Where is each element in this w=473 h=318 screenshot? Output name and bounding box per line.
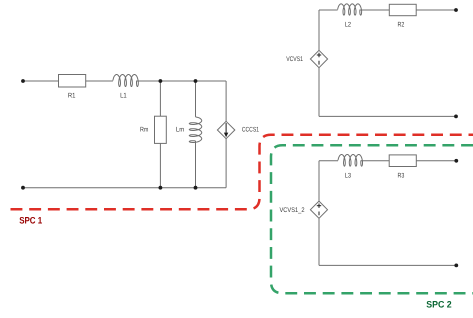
SPC 1 boundary (red dashed) bbox=[11, 135, 473, 210]
svg-text:SPC 1: SPC 1 bbox=[19, 215, 42, 226]
wire Lm to bottom bbox=[195, 141, 197, 188]
wire top-right corner to L2 bbox=[319, 9, 338, 11]
wire L1 to CCCS1 column bbox=[137, 80, 226, 82]
SPC 2 boundary (green dashed) bbox=[271, 145, 473, 293]
resistor R2 bbox=[389, 4, 416, 15]
wire VCVS1 to bottom bbox=[318, 68, 320, 117]
terminal dot top-right circuit bottom bbox=[454, 115, 458, 119]
wire CCCS1 to bottom bbox=[225, 139, 227, 188]
terminal dot bottom-right circuit bottom bbox=[454, 264, 458, 268]
svg-text:L3: L3 bbox=[345, 172, 352, 179]
wire top-left to R1 bbox=[23, 80, 59, 82]
inductor L1 bbox=[113, 75, 138, 87]
voltage source VCVS1 bbox=[310, 50, 327, 67]
inductor L2 bbox=[338, 4, 362, 15]
terminal dot bottom-left bbox=[21, 186, 25, 190]
svg-text:R3: R3 bbox=[398, 172, 405, 179]
wire bottom rail bottom-right circuit bbox=[319, 264, 456, 266]
wire R1 to L1 bbox=[86, 80, 113, 82]
wire node A down to Rm bbox=[159, 81, 161, 116]
voltage source VCVS1_2 bbox=[310, 201, 327, 218]
junction Rm top bbox=[159, 79, 163, 83]
terminal dot bottom-right circuit top bbox=[454, 159, 458, 163]
svg-text:Rm: Rm bbox=[140, 126, 149, 133]
junction Lm bottom bbox=[194, 186, 198, 190]
wire down to VCVS1 bbox=[318, 10, 320, 50]
wire R2 to terminal bbox=[416, 9, 456, 11]
wire bottom rail bbox=[23, 187, 226, 189]
svg-text:L1: L1 bbox=[120, 93, 127, 100]
junction Lm top bbox=[194, 79, 198, 83]
wire down to VCVS1_2 bbox=[318, 161, 320, 201]
terminal dot top-right circuit top bbox=[454, 8, 458, 12]
wire bottom rail top-right circuit bbox=[319, 115, 456, 117]
wire node B down to Lm bbox=[195, 81, 197, 117]
svg-text:VCVS1_2: VCVS1_2 bbox=[280, 207, 305, 214]
svg-text:Lm: Lm bbox=[176, 126, 185, 133]
svg-text:SPC 2: SPC 2 bbox=[426, 299, 451, 310]
wire R3 to terminal bbox=[416, 160, 456, 162]
wire L3 to R3 bbox=[361, 160, 389, 162]
svg-text:L2: L2 bbox=[345, 21, 352, 28]
inductor Lm bbox=[189, 117, 201, 143]
svg-text:R2: R2 bbox=[398, 21, 405, 28]
resistor R1 bbox=[59, 75, 86, 88]
resistor R3 bbox=[389, 155, 416, 167]
inductor L3 bbox=[338, 155, 363, 167]
wire VCVS1_2 to bottom bbox=[318, 218, 320, 265]
wire Rm to bottom bbox=[159, 143, 161, 187]
wire top to CCCS1 bbox=[225, 81, 227, 121]
svg-text:VCVS1: VCVS1 bbox=[286, 56, 303, 63]
svg-text:CCCS1: CCCS1 bbox=[242, 126, 259, 133]
wire corner to L3 bbox=[319, 160, 338, 162]
junction Rm bottom bbox=[159, 186, 163, 190]
resistor Rm bbox=[155, 116, 167, 143]
current source CCCS1 bbox=[217, 121, 234, 138]
terminal dot top-left bbox=[21, 79, 25, 83]
wire L2 to R2 bbox=[360, 9, 389, 11]
svg-text:R1: R1 bbox=[68, 93, 76, 100]
